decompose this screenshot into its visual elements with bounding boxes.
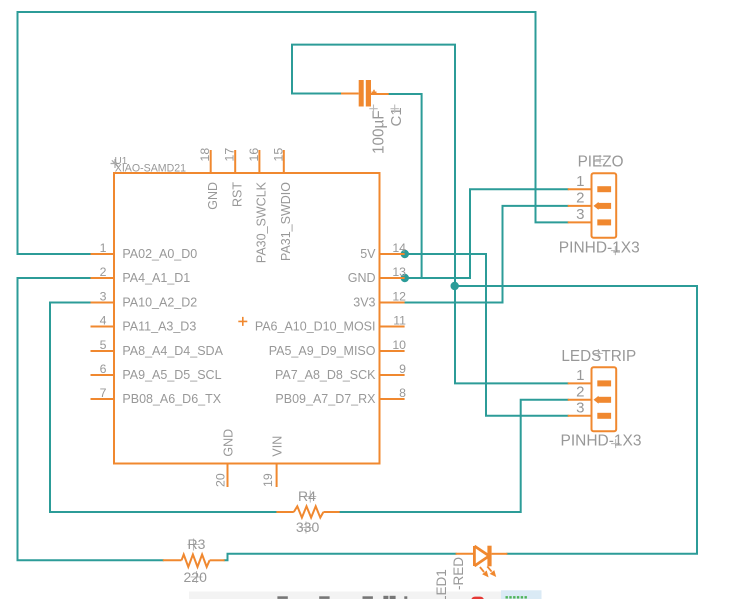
U1 left pin stubs 1-7 [91, 254, 115, 399]
svg-text:19: 19 [261, 473, 275, 487]
svg-text:-RED: -RED [451, 557, 466, 590]
connector PIEZO pad 2 with arrow [597, 203, 611, 209]
connector PIEZO pin 1 stub [568, 188, 592, 190]
LED LED1 light emission arrows [480, 566, 496, 577]
svg-text:PIEZO: PIEZO [578, 154, 624, 171]
capacitor C1 plates [359, 80, 364, 107]
svg-text:LEDSTRIP: LEDSTRIP [561, 348, 636, 365]
svg-text:3: 3 [576, 206, 584, 223]
svg-text:4: 4 [100, 314, 107, 328]
svg-text:GND: GND [348, 271, 376, 285]
svg-text:9: 9 [399, 362, 406, 376]
svg-text:330: 330 [296, 519, 320, 535]
svg-text:100µF: 100µF [371, 110, 388, 154]
svg-text:PA30_SWCLK: PA30_SWCLK [255, 181, 269, 263]
svg-text:VIN: VIN [271, 436, 285, 457]
svg-text:5V: 5V [360, 247, 376, 261]
svg-text:PA10_A2_D2: PA10_A2_D2 [122, 296, 197, 310]
svg-text:14: 14 [392, 241, 406, 255]
connector LEDSTRIP pin 3 stub [568, 415, 592, 417]
svg-text:GND: GND [222, 429, 236, 457]
svg-text:15: 15 [271, 148, 285, 162]
svg-text:1: 1 [576, 367, 584, 384]
svg-text:XIAO-SAMD21: XIAO-SAMD21 [115, 163, 186, 175]
wire net LEDK : junction right, down right edge, to LED cathode [455, 286, 698, 554]
svg-text:8: 8 [399, 386, 406, 400]
svg-text:20: 20 [214, 473, 228, 487]
wire net 3V3 : IC pin12 to PIEZO pin 2 [405, 206, 568, 303]
svg-text:3: 3 [100, 290, 107, 304]
capacitor C1 refdes origin cross [391, 105, 399, 113]
connector PIEZO pin 3 stub [568, 221, 592, 223]
wire net 5V : IC pin14 to LEDSTRIP pin 3 [405, 254, 568, 416]
svg-text:3: 3 [576, 400, 584, 417]
svg-text:PA9_A5_D5_SCL: PA9_A5_D5_SCL [122, 368, 221, 382]
svg-text:PA7_A8_D8_SCK: PA7_A8_D8_SCK [275, 368, 376, 382]
U1 right pin stubs 14-8 [380, 254, 405, 399]
LED LED1 triangle [474, 546, 489, 566]
wire net LEDSTRIP1 : junction down to LEDSTRIP pin 1 [455, 286, 568, 383]
op-amp U1 body box [114, 173, 380, 464]
wire net R4-LEDSTRIP2 : R4 right lead to LEDSTRIP pin 2 [340, 400, 568, 512]
wire net GND : IC pin13 to PIEZO pin 1 [405, 189, 568, 278]
svg-text:PA5_A9_D9_MISO: PA5_A9_D9_MISO [269, 344, 376, 358]
wire net GND branch : capacitor C1 right plate down to GND run [389, 94, 422, 278]
svg-text:13: 13 [392, 265, 406, 279]
U1 origin cross [111, 159, 120, 168]
wire net D1-R3 : IC pin2 left and down to R3 left lead [18, 278, 163, 560]
connector LEDSTRIP title origin cross [594, 349, 603, 358]
connector PIEZO title origin cross [596, 155, 605, 164]
junction dot on IC pin13 (GND) [401, 274, 409, 282]
bottom strip text blob 2 [319, 596, 329, 599]
svg-text:GND: GND [206, 182, 220, 210]
U1 right pin name labels [255, 247, 376, 406]
svg-text:16: 16 [247, 148, 261, 162]
svg-text:PA02_A0_D0: PA02_A0_D0 [122, 247, 197, 261]
svg-text:PA31_SWDIO: PA31_SWDIO [279, 182, 293, 261]
capacitor C1 right lead [371, 93, 389, 95]
capacitor C1 value origin cross [369, 105, 377, 113]
svg-text:LED1: LED1 [434, 569, 449, 599]
svg-text:18: 18 [198, 148, 212, 162]
svg-text:R4: R4 [298, 488, 316, 504]
LED LED1 right lead [492, 553, 508, 555]
svg-text:R3: R3 [188, 536, 206, 552]
svg-text:PA11_A3_D3: PA11_A3_D3 [122, 320, 196, 334]
connector LEDSTRIP pad 1 [597, 380, 611, 386]
U1 top pin stubs 18-15 [211, 150, 284, 173]
connector PIEZO pad 1 [597, 186, 611, 192]
svg-text:10: 10 [392, 338, 406, 352]
resistor R4 name origin cross [304, 491, 316, 503]
svg-text:PINHD-1X3: PINHD-1X3 [561, 432, 642, 449]
svg-text:PB09_A7_D7_RX: PB09_A7_D7_RX [275, 392, 376, 406]
connector PIEZO pin 2 stub [568, 205, 592, 207]
wire net PIEZO3-D0 : IC pin1 to top rail to PIEZO pin 3 [18, 12, 568, 254]
svg-text:PA6_A10_D10_MOSI: PA6_A10_D10_MOSI [255, 320, 376, 334]
resistor R3 value origin cross [191, 571, 203, 583]
U1 top pin numbers 18,17,16,15 (rotated) [198, 148, 285, 162]
U1 origin + mark (orange) [238, 317, 247, 326]
bottom UI strip background [189, 590, 542, 599]
svg-text:PA8_A4_D4_SDA: PA8_A4_D4_SDA [122, 344, 223, 358]
U1 bottom pin stubs 20,19 [228, 464, 277, 488]
svg-text:5: 5 [100, 338, 107, 352]
svg-text:3V3: 3V3 [353, 296, 375, 310]
connector PIEZO pad 3 [597, 219, 611, 225]
svg-text:6: 6 [100, 362, 107, 376]
svg-text:12: 12 [392, 290, 406, 304]
capacitor C1 polarity + mark [372, 90, 377, 95]
U1 top pin name labels (rotated) [206, 181, 293, 263]
svg-text:PINHD-1X3: PINHD-1X3 [559, 239, 640, 256]
U1 bottom pin name labels (rotated) [222, 429, 285, 457]
connector LEDSTRIP body box [592, 367, 617, 431]
bottom strip text blob 5 [390, 596, 396, 599]
svg-text:17: 17 [223, 148, 237, 162]
connector LEDSTRIP pin 2 stub [568, 399, 592, 401]
svg-text:PB08_A6_D6_TX: PB08_A6_D6_TX [122, 392, 221, 406]
svg-text:2: 2 [576, 384, 584, 401]
capacitor C1 left lead [341, 93, 359, 95]
wire net CAPLOOP : capacitor C1 left plate up over and down [292, 45, 455, 286]
svg-text:C1: C1 [388, 107, 405, 126]
svg-text:PA4_A1_D1: PA4_A1_D1 [122, 271, 190, 285]
bottom strip text blob 6 [404, 596, 407, 599]
U1 right pin numbers [392, 241, 406, 400]
svg-text:2: 2 [576, 190, 584, 207]
LED LED1 left (anode) lead [456, 553, 475, 555]
wire net D2-R4 : IC pin3 left and down to R4 left lead [50, 303, 276, 513]
bottom strip text blob 3 [363, 596, 373, 599]
bottom strip red icon [471, 597, 483, 599]
connector LEDSTRIP value origin cross [611, 439, 620, 448]
bottom strip text blob 1 [277, 596, 287, 599]
svg-text:RST: RST [231, 182, 245, 207]
LED LED1 cathode bar [487, 546, 491, 567]
U1 bottom pin numbers 20,19 (rotated) [214, 473, 276, 487]
svg-text:1: 1 [100, 241, 107, 255]
junction dot on IC pin14 (5V) [401, 250, 409, 258]
connector PIEZO value origin cross [611, 246, 620, 255]
resistor R4 value origin cross [300, 522, 312, 534]
wire net R3-LEDA : R3 right lead jog up to LED anode [225, 554, 456, 561]
bottom strip green logo dots [506, 596, 527, 599]
resistor R3 name origin cross [188, 539, 200, 551]
connector LEDSTRIP pad 3 [597, 413, 611, 419]
resistor R4 leads and zigzag [276, 506, 339, 517]
resistor R3 leads and zigzag [163, 555, 225, 567]
connector LEDSTRIP pad 2 with arrow [597, 397, 611, 403]
U1 left pin numbers [100, 241, 107, 400]
svg-text:7: 7 [100, 386, 107, 400]
svg-text:11: 11 [393, 314, 406, 328]
U1 left pin name labels [122, 247, 223, 406]
bottom strip text blob 4 [383, 596, 388, 599]
connector PIEZO body box [592, 173, 617, 238]
svg-text:1: 1 [576, 173, 584, 190]
svg-text:220: 220 [184, 569, 208, 585]
connector LEDSTRIP pin 1 stub [568, 382, 592, 384]
junction node LED/cap/ledstrip net [451, 282, 459, 290]
svg-text:2: 2 [100, 265, 107, 279]
